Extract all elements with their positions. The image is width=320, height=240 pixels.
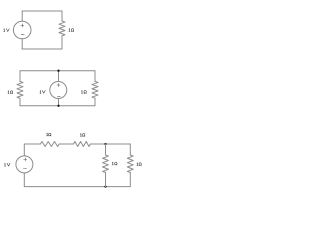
- wire R3 to bottom rail: [94, 98, 96, 106]
- wire R7 to bottom rail: [129, 173, 131, 187]
- voltage source V2: [50, 82, 67, 99]
- wire top rail left circuit 3: [24, 143, 40, 145]
- wire top rail circuit 1: [22, 10, 62, 12]
- wire top rail to V2: [58, 71, 60, 82]
- resistor R3: [92, 81, 98, 98]
- junction node B bottom: [104, 185, 106, 187]
- wire top rail circuit 2: [20, 70, 95, 72]
- wire R1 to bottom rail: [61, 36, 63, 49]
- voltage source V1: [13, 21, 31, 39]
- resistor R1: [59, 21, 65, 36]
- V2 minus sign: [58, 95, 61, 97]
- V3 minus sign: [24, 167, 27, 169]
- junction node top of V2: [57, 70, 59, 72]
- wire R6 to node B: [105, 173, 107, 187]
- wire node A to R6: [105, 144, 107, 155]
- resistor R4: [40, 142, 59, 147]
- wire rail to R1: [61, 11, 63, 21]
- R3 value label 1 ohm: [82, 90, 87, 93]
- junction node A top: [104, 143, 106, 145]
- wire R5 to node A: [90, 143, 105, 145]
- V1 value label 1 V: [4, 29, 10, 32]
- R5 value label 1 ohm: [80, 133, 85, 136]
- wire bottom rail circuit 2: [20, 105, 95, 107]
- wire V3 to bottom rail: [23, 173, 25, 187]
- wire bottom rail circuit 1: [22, 48, 62, 50]
- wire top right corner to R7: [129, 144, 131, 155]
- resistor R2: [17, 81, 23, 98]
- V2 value label 1 V: [40, 91, 45, 94]
- R1 value label 1 ohm: [69, 29, 74, 32]
- resistor R7: [127, 155, 133, 173]
- wire right rail to R3: [94, 71, 96, 82]
- R2 value label 1 ohm: [8, 91, 13, 94]
- wire left rail to R2: [19, 71, 21, 82]
- wire between R4 and R5: [59, 143, 73, 145]
- R4 value label 1 ohm: [47, 133, 51, 136]
- wire bottom rail to V1: [21, 39, 23, 49]
- wire top rail to V3: [23, 144, 25, 156]
- wire node A to top right corner: [106, 143, 131, 145]
- resistor R5: [74, 142, 91, 147]
- V1 plus sign: [21, 24, 24, 27]
- junction node bottom of V2: [57, 105, 59, 107]
- V1 minus sign: [21, 33, 24, 35]
- wire R2 to bottom rail: [19, 98, 21, 106]
- wire bottom rail circuit 3: [24, 186, 130, 188]
- wire V2 to bottom rail: [58, 99, 60, 106]
- voltage source V3: [16, 156, 33, 173]
- R7 value label 1 ohm: [137, 163, 142, 166]
- V2 plus sign: [57, 83, 60, 86]
- resistor R6: [103, 155, 109, 173]
- V3 value label 1 V: [5, 163, 11, 166]
- wire V1 top to rail: [21, 11, 23, 21]
- V3 plus sign: [24, 158, 27, 161]
- R6 value label 1 ohm: [112, 162, 117, 165]
